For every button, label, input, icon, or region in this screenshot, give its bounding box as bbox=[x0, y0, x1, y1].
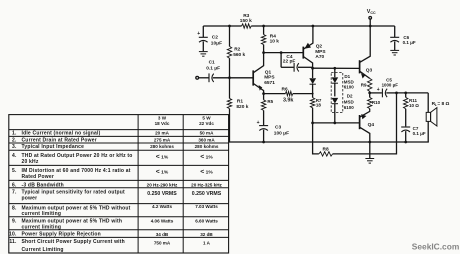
svg-text:+: + bbox=[377, 87, 380, 93]
svg-text:750 mA: 750 mA bbox=[154, 240, 171, 245]
svg-text:5.: 5. bbox=[12, 168, 17, 174]
node: C4 tap on base wire bbox=[280, 51, 283, 54]
svg-text:< 1%: < 1% bbox=[156, 154, 169, 161]
svg-text:= 8 Ω: = 8 Ω bbox=[437, 101, 449, 107]
resistor R6 3.9k (from Q1 emitter to bias chain) bbox=[264, 87, 313, 104]
svg-text:10μF: 10μF bbox=[211, 40, 222, 46]
svg-text:6.: 6. bbox=[12, 182, 17, 188]
capacitor C6 0.1uF (supply bypass) bbox=[390, 26, 416, 50]
svg-text:20 Hz-290 kHz: 20 Hz-290 kHz bbox=[147, 182, 178, 187]
svg-text:820 k: 820 k bbox=[236, 104, 248, 110]
svg-text:360 mA: 360 mA bbox=[198, 137, 215, 142]
svg-text:< 1%: < 1% bbox=[156, 168, 169, 175]
svg-text:5 W: 5 W bbox=[202, 115, 211, 120]
node: Q4 collector at ground rail bbox=[368, 141, 371, 144]
resistor R7 18 ohm bbox=[310, 94, 322, 123]
capacitor C1 0.1uF (input coupling) bbox=[199, 59, 230, 82]
svg-text:7.03 Watts: 7.03 Watts bbox=[195, 204, 218, 209]
svg-text:< 1%: < 1% bbox=[200, 168, 213, 175]
svg-text:C1: C1 bbox=[209, 59, 215, 65]
svg-text:Current Limiting: Current Limiting bbox=[22, 247, 64, 253]
node: Q1 collector / R4 / Q2 base wire bbox=[262, 51, 265, 54]
wire: top supply rail right segment bbox=[251, 25, 395, 27]
node: output node (R9/R10/C5) bbox=[368, 92, 371, 95]
transistor Q4 (PNP output) bbox=[360, 111, 375, 159]
transistor Q2 MPSA70 (PNP) bbox=[303, 26, 326, 68]
specification table bbox=[9, 115, 229, 253]
wire: top supply rail left segment bbox=[203, 25, 241, 27]
node: R2/R1 divider at Q1 base bbox=[228, 76, 231, 79]
transistor Q3 (NPN output) bbox=[360, 26, 373, 79]
svg-text:18 Vdc: 18 Vdc bbox=[155, 121, 170, 126]
svg-text:R6: R6 bbox=[282, 87, 288, 93]
svg-text:22 Vdc: 22 Vdc bbox=[199, 121, 214, 126]
wire: to Q2 base bbox=[264, 52, 304, 54]
svg-text:0.1 μF: 0.1 μF bbox=[403, 40, 416, 45]
svg-text:4.: 4. bbox=[12, 153, 17, 159]
svg-text:Typical input sensitivity for: Typical input sensitivity for rated outp… bbox=[22, 189, 125, 195]
svg-text:1000 μF: 1000 μF bbox=[382, 83, 399, 88]
svg-text:C2: C2 bbox=[212, 35, 218, 41]
node: R11 top bbox=[404, 92, 407, 95]
node: speaker feed / feedback takeoff bbox=[395, 92, 398, 95]
svg-text:MSD: MSD bbox=[344, 99, 355, 104]
resistor R10 bbox=[368, 93, 381, 111]
svg-text:Typical Input Impedance: Typical Input Impedance bbox=[22, 144, 85, 150]
svg-text:11.: 11. bbox=[9, 239, 17, 245]
svg-text:18: 18 bbox=[316, 103, 322, 108]
Vcc supply terminal bbox=[367, 9, 376, 26]
svg-text:560 k: 560 k bbox=[233, 52, 245, 58]
svg-text:Q4: Q4 bbox=[368, 122, 375, 128]
svg-text:CC: CC bbox=[370, 11, 376, 15]
svg-text:Current Drain at Rated Power: Current Drain at Rated Power bbox=[22, 137, 97, 143]
svg-text:32 dB: 32 dB bbox=[200, 232, 213, 237]
node: Q2 collector / Q3 base wire bbox=[311, 67, 314, 70]
svg-text:0.250 VRMS: 0.250 VRMS bbox=[192, 191, 222, 197]
svg-text:280 kohms: 280 kohms bbox=[195, 144, 219, 149]
node: diode chain bottom on Q4 base wire bbox=[333, 122, 336, 125]
svg-text:Short Circuit Power Supply Cur: Short Circuit Power Supply Current with bbox=[22, 239, 125, 245]
diode D2 MSD6100 bbox=[332, 94, 355, 123]
svg-text:+: + bbox=[257, 120, 260, 126]
svg-text:MPS: MPS bbox=[315, 49, 326, 55]
svg-text:280 kohms: 280 kohms bbox=[150, 144, 174, 149]
resistor R1 820k bbox=[227, 78, 248, 142]
diode (bias, below Q2) bbox=[309, 68, 316, 93]
svg-text:Q3: Q3 bbox=[366, 68, 373, 74]
capacitor C5 1000uF (output coupling) bbox=[370, 78, 399, 98]
diode D1 MSD6100 bbox=[332, 68, 355, 96]
svg-text:Q1: Q1 bbox=[265, 69, 272, 75]
node: R7 bottom / Q4 base wire / feedback bbox=[311, 122, 314, 125]
resistor R3 150k (series in supply rail) bbox=[240, 13, 252, 28]
svg-text:D2: D2 bbox=[347, 94, 353, 99]
svg-text:R2: R2 bbox=[234, 47, 240, 53]
svg-text:R5: R5 bbox=[267, 99, 273, 104]
svg-text:Power Supply Ripple Rejection: Power Supply Ripple Rejection bbox=[22, 231, 101, 237]
svg-text:current limiting: current limiting bbox=[22, 224, 62, 230]
svg-text:150 k: 150 k bbox=[240, 18, 252, 24]
dual bias diode package (dashed outline) bbox=[331, 73, 343, 113]
svg-text:C3: C3 bbox=[275, 125, 281, 131]
svg-text:50 mA: 50 mA bbox=[200, 131, 214, 136]
resistor R2 560k bbox=[227, 26, 245, 78]
svg-text:9.: 9. bbox=[12, 218, 17, 224]
svg-text:22 pF: 22 pF bbox=[283, 58, 296, 64]
node: C3 at ground rail bbox=[262, 141, 265, 144]
ground (below C2) bbox=[199, 51, 208, 53]
node: Q2 emitter at rail bbox=[312, 25, 315, 28]
svg-text:Rated Power: Rated Power bbox=[22, 174, 55, 180]
svg-text:6.60 Watts: 6.60 Watts bbox=[195, 219, 218, 224]
capacitor C7 0.1uF (Zobel) bbox=[401, 126, 426, 142]
svg-text:1 A: 1 A bbox=[203, 240, 211, 245]
svg-text:MPS: MPS bbox=[264, 75, 275, 81]
svg-text:3.: 3. bbox=[12, 144, 17, 150]
node: Q1 emitter junction bbox=[262, 92, 265, 95]
svg-text:< 1%: < 1% bbox=[200, 154, 213, 161]
svg-text:100 μF: 100 μF bbox=[274, 130, 289, 136]
svg-text:6100: 6100 bbox=[344, 105, 355, 110]
wire: Q3 base drive bbox=[313, 67, 360, 69]
svg-text:6571: 6571 bbox=[264, 80, 275, 86]
capacitor C2 10uF (supply decoupling) bbox=[197, 26, 222, 51]
svg-text:Q2: Q2 bbox=[316, 44, 323, 50]
transistor Q1 MPS6571 (NPN) bbox=[253, 53, 275, 94]
svg-text:current limiting: current limiting bbox=[22, 211, 62, 217]
node: R2 top junction bbox=[228, 25, 231, 28]
svg-text:R1: R1 bbox=[237, 99, 243, 105]
node: diode cathode / R6 / R7 junction bbox=[312, 93, 314, 95]
svg-text:10 Ω: 10 Ω bbox=[409, 103, 419, 108]
svg-text:8.: 8. bbox=[12, 205, 17, 211]
svg-text:3 W: 3 W bbox=[158, 115, 167, 120]
capacitor C4 22pF (feedback) bbox=[281, 53, 313, 72]
svg-text:R9: R9 bbox=[361, 83, 367, 88]
svg-text:0.1 μF: 0.1 μF bbox=[206, 65, 220, 71]
svg-text:3.9k: 3.9k bbox=[283, 97, 294, 103]
wire: to R11 and speaker bbox=[397, 92, 429, 94]
svg-text:2.: 2. bbox=[12, 137, 17, 143]
svg-text:A70: A70 bbox=[315, 54, 324, 60]
svg-text:0.250 VRMS: 0.250 VRMS bbox=[147, 191, 177, 197]
resistor R9 (output emitter) bbox=[361, 78, 372, 93]
wire: Q1 base bbox=[230, 77, 254, 79]
svg-text:10 k: 10 k bbox=[270, 38, 280, 44]
capacitor C3 100uF (emitter bypass) bbox=[257, 120, 289, 142]
node: Vcc at rail / Q3 collector bbox=[369, 25, 372, 28]
resistor R4 10k bbox=[261, 26, 279, 53]
svg-text:20 mA: 20 mA bbox=[155, 131, 169, 136]
svg-text:6100: 6100 bbox=[344, 85, 355, 90]
svg-text:4.06 Watts: 4.06 Watts bbox=[151, 219, 174, 224]
svg-text:10.: 10. bbox=[9, 231, 17, 237]
node: R4 top at rail bbox=[262, 25, 265, 28]
svg-text:+: + bbox=[197, 31, 200, 37]
svg-text:-3 dB Bandwidth: -3 dB Bandwidth bbox=[22, 182, 64, 188]
svg-text:R10: R10 bbox=[372, 100, 381, 105]
svg-text:0.1 μF: 0.1 μF bbox=[413, 131, 426, 136]
resistor R5 (Q1 emitter) bbox=[261, 94, 273, 125]
svg-text:SeekIC.com: SeekIC.com bbox=[412, 242, 459, 252]
svg-text:20 kHz: 20 kHz bbox=[22, 159, 39, 165]
ground (below C6) bbox=[390, 49, 399, 51]
input terminal bbox=[196, 76, 199, 79]
svg-text:20 Hz-325 kHz: 20 Hz-325 kHz bbox=[191, 182, 222, 187]
node: C7 at ground rail bbox=[404, 141, 407, 144]
svg-text:Idle Current (normal no signal: Idle Current (normal no signal) bbox=[22, 131, 101, 137]
ground (main) bbox=[365, 158, 374, 160]
svg-text:1.: 1. bbox=[12, 131, 17, 137]
wire: Q4 base bbox=[313, 122, 360, 124]
resistor R8 (feedback) and wire to output bbox=[313, 93, 397, 156]
svg-text:7.: 7. bbox=[12, 189, 17, 195]
wire: ground return rail (bottom) bbox=[230, 141, 429, 144]
svg-text:R8: R8 bbox=[323, 147, 329, 153]
speaker RL 8 ohm bbox=[426, 93, 449, 142]
node: diode chain top bbox=[333, 67, 336, 70]
svg-text:34 dB: 34 dB bbox=[156, 232, 169, 237]
svg-text:4.2 Watts: 4.2 Watts bbox=[152, 204, 172, 209]
resistor R11 10 ohm (Zobel) bbox=[404, 93, 420, 127]
svg-text:275 mA: 275 mA bbox=[154, 137, 171, 142]
svg-text:power: power bbox=[22, 195, 38, 201]
